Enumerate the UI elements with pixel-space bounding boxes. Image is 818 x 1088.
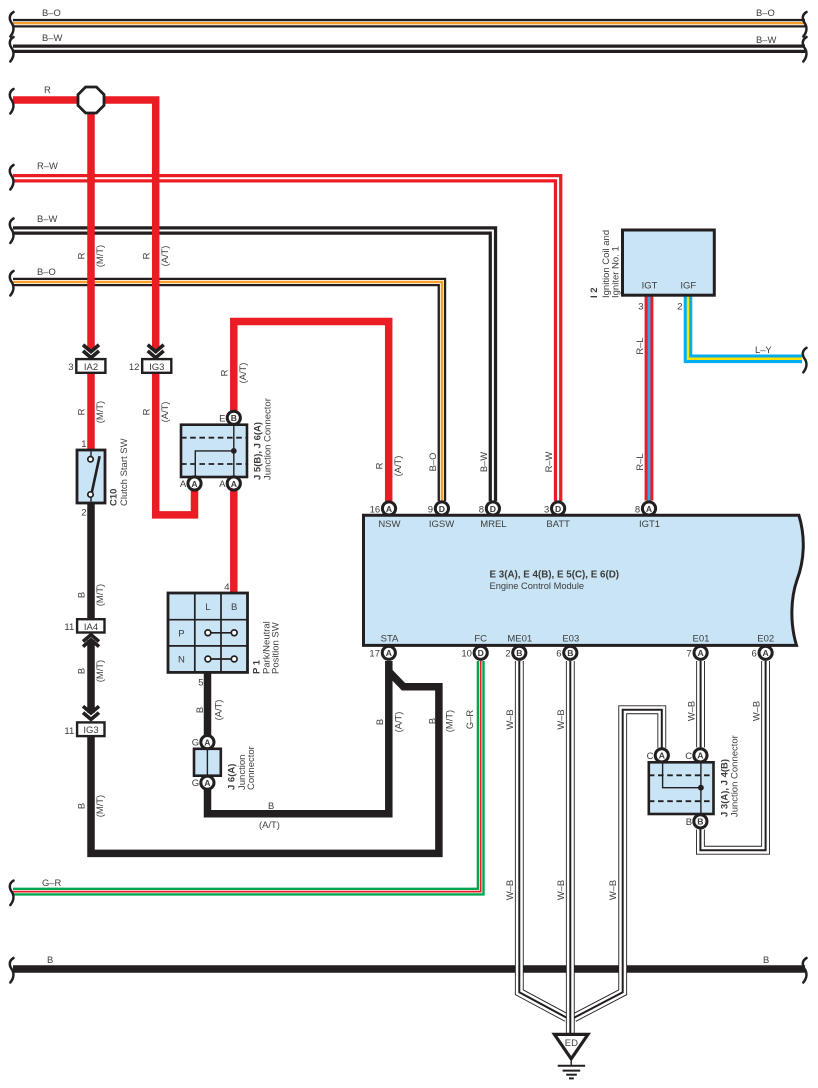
svg-text:4: 4 xyxy=(224,582,229,593)
svg-text:Igniter No. 1: Igniter No. 1 xyxy=(610,246,621,298)
svg-text:MREL: MREL xyxy=(480,519,506,530)
wire W-B from ECM ME01 pin 2 down to ground junction xyxy=(519,661,567,1018)
arrow chevrons above IA2 xyxy=(83,345,99,358)
wire B (M/T) from IA4 arrow down to IG3 arrow xyxy=(87,640,95,713)
svg-text:12: 12 xyxy=(129,362,140,373)
J6(A) pin G bottom (A) xyxy=(201,776,214,789)
svg-text:B: B xyxy=(686,817,692,828)
svg-text:Clutch Start SW: Clutch Start SW xyxy=(119,438,130,506)
svg-text:7: 7 xyxy=(687,649,692,660)
svg-text:L: L xyxy=(205,602,210,613)
wire B-O top bus xyxy=(13,19,805,28)
svg-text:5: 5 xyxy=(198,678,203,689)
junction connector J5(B), J6(A) xyxy=(181,425,247,477)
svg-text:B: B xyxy=(567,648,573,658)
svg-text:(A/T): (A/T) xyxy=(213,700,224,721)
svg-text:B: B xyxy=(231,413,237,423)
svg-text:A: A xyxy=(219,479,226,490)
wire B-O to IGSW xyxy=(13,282,442,501)
J5/J6 pin A left (A) xyxy=(188,477,201,490)
svg-text:R: R xyxy=(76,408,87,415)
svg-text:IG3: IG3 xyxy=(83,725,98,736)
svg-text:A: A xyxy=(180,479,187,490)
svg-text:IA2: IA2 xyxy=(84,362,98,373)
svg-text:R: R xyxy=(140,408,151,415)
svg-text:G: G xyxy=(192,738,199,749)
wire L-Y from I2 IGF pin 2 down and right xyxy=(688,295,802,359)
svg-text:B: B xyxy=(47,954,53,965)
svg-text:IA4: IA4 xyxy=(84,622,98,633)
break symbol left B-W 2 xyxy=(10,219,14,244)
svg-text:9: 9 xyxy=(428,504,433,515)
svg-text:B: B xyxy=(231,602,237,613)
connector IA4 xyxy=(77,619,104,633)
svg-text:R: R xyxy=(76,252,87,259)
svg-text:B–W: B–W xyxy=(42,32,62,43)
svg-text:16: 16 xyxy=(370,504,381,515)
svg-text:A: A xyxy=(697,648,703,658)
svg-text:A: A xyxy=(659,751,665,761)
arrow chevrons above IG3 (11) pointing down xyxy=(83,706,99,719)
wire R (A/T) from J5/J6 pin A down to P1 pin 4 xyxy=(230,491,238,593)
svg-text:Junction Connector: Junction Connector xyxy=(263,398,274,480)
svg-text:A: A xyxy=(231,479,237,489)
svg-text:10: 10 xyxy=(461,649,472,660)
svg-text:2: 2 xyxy=(81,508,86,519)
svg-text:I 2: I 2 xyxy=(589,287,600,298)
svg-text:(M/T): (M/T) xyxy=(94,660,105,682)
break symbol left B-W xyxy=(10,37,14,62)
ignition coil box I2 xyxy=(623,230,715,295)
svg-text:3: 3 xyxy=(544,504,549,515)
svg-text:(A/T): (A/T) xyxy=(392,456,403,477)
svg-text:(A/T): (A/T) xyxy=(237,363,248,384)
J3/J4 pin B (B) xyxy=(694,815,707,828)
wire W-B from ECM E03 pin 6 straight down to ground ED xyxy=(566,661,575,1035)
svg-text:(A/T): (A/T) xyxy=(393,712,404,733)
svg-text:P: P xyxy=(178,628,184,639)
wire R (A/T) from J5/J6 pin B up and right to ECM NSW pin 16 xyxy=(234,322,389,502)
junction connector J3(A), J4(B) xyxy=(649,762,714,814)
svg-text:W–B: W–B xyxy=(555,709,566,729)
svg-text:3: 3 xyxy=(68,362,73,373)
svg-text:D: D xyxy=(490,504,496,514)
break symbol left R xyxy=(10,89,14,114)
svg-text:Junction Connector: Junction Connector xyxy=(730,735,741,817)
svg-text:R–L: R–L xyxy=(634,337,645,354)
svg-text:B–W: B–W xyxy=(478,452,489,472)
park/neutral position switch P1 xyxy=(168,593,248,672)
break symbol left G-R xyxy=(10,881,14,906)
svg-text:A: A xyxy=(204,778,210,788)
svg-text:IGSW: IGSW xyxy=(429,519,454,530)
svg-text:W–B: W–B xyxy=(685,701,696,721)
svg-text:11: 11 xyxy=(64,622,74,633)
wire B (M/T) from IG3 down, right and up to STA junction xyxy=(91,672,439,854)
svg-text:Connector: Connector xyxy=(246,746,257,790)
svg-text:B: B xyxy=(268,800,274,811)
pin 7 E01 (A) xyxy=(694,646,707,659)
svg-text:R: R xyxy=(140,252,151,259)
svg-text:BATT: BATT xyxy=(546,519,570,530)
svg-text:B–O: B–O xyxy=(42,7,61,18)
J3/J4 pin C left (A) xyxy=(655,749,668,762)
svg-text:(M/T): (M/T) xyxy=(94,245,105,267)
svg-text:R–L: R–L xyxy=(634,453,645,470)
svg-text:ME01: ME01 xyxy=(507,634,532,645)
svg-text:C: C xyxy=(685,751,692,762)
svg-text:6: 6 xyxy=(752,649,757,660)
svg-text:6: 6 xyxy=(556,649,561,660)
wire B (A/T) from P1 pin 5 through J6(A) right and up to ECM STA pin 17 xyxy=(208,661,389,814)
svg-text:B: B xyxy=(516,648,522,658)
svg-text:(A/T): (A/T) xyxy=(159,246,170,267)
wire G-R from ECM FC pin 10 down and left xyxy=(13,661,481,892)
pin 6 E02 (A) xyxy=(759,646,772,659)
svg-text:A: A xyxy=(204,737,210,747)
svg-text:N: N xyxy=(178,655,185,666)
svg-text:2: 2 xyxy=(677,302,682,313)
J6(A) pin G top (A) xyxy=(201,736,214,749)
break symbol left B xyxy=(10,958,14,983)
svg-text:Position SW: Position SW xyxy=(271,622,282,674)
svg-text:B: B xyxy=(426,718,437,724)
break symbol right B xyxy=(803,958,807,983)
svg-text:R: R xyxy=(219,369,230,376)
wire R-L from I2 IGT pin 3 to ECM IGT1 pin 8 xyxy=(645,295,654,501)
svg-text:A: A xyxy=(191,479,197,489)
svg-text:11: 11 xyxy=(64,726,74,737)
pin 9 IGSW (D) xyxy=(435,502,448,515)
clutch start switch C10 xyxy=(77,450,105,503)
svg-text:G–R: G–R xyxy=(42,877,62,888)
break symbol left B-O xyxy=(10,12,14,37)
svg-text:(M/T): (M/T) xyxy=(94,584,105,606)
svg-text:E 3(A), E 4(B), E 5(C), E 6(D): E 3(A), E 4(B), E 5(C), E 6(D) xyxy=(490,570,620,581)
wire W-B from ECM E01 pin 7 to J3/J4 pin C xyxy=(696,661,705,747)
J5/J6 pin E (B) xyxy=(227,411,240,424)
wire R (A/T) from IG3(12) down, right, up to J5/J6 pin A xyxy=(156,360,195,515)
svg-text:B: B xyxy=(697,817,703,827)
connector IA2 xyxy=(76,359,105,373)
wire B-W top bus xyxy=(13,45,805,54)
svg-text:1: 1 xyxy=(81,439,86,450)
ground symbol xyxy=(558,1060,585,1078)
svg-text:L–Y: L–Y xyxy=(755,344,772,355)
wire B (M/T) from C10 pin 2 down to IA4 xyxy=(87,503,95,619)
svg-text:Engine Control Module: Engine Control Module xyxy=(490,581,585,591)
break symbol right B-W xyxy=(803,37,807,62)
svg-text:(M/T): (M/T) xyxy=(94,401,105,423)
svg-text:B: B xyxy=(374,719,385,725)
wire R-W to BATT xyxy=(13,178,558,501)
wire W-B from ECM E02 pin 6 down, left and up to J3/J4 pin B xyxy=(700,661,765,850)
svg-text:W–B: W–B xyxy=(607,880,618,900)
pin 8 IGT1 (A) xyxy=(642,502,655,515)
svg-text:E01: E01 xyxy=(693,634,710,645)
svg-text:D: D xyxy=(478,648,484,658)
wire R M/T segment through IA2 to C10 xyxy=(87,360,95,451)
svg-text:ED: ED xyxy=(565,1038,578,1049)
break symbol left R-W xyxy=(10,165,14,190)
svg-text:W–B: W–B xyxy=(504,709,515,729)
svg-text:R: R xyxy=(374,462,385,469)
pin 17 STA (A) xyxy=(382,646,395,659)
wire B bottom bus xyxy=(13,965,805,973)
svg-text:IG3: IG3 xyxy=(149,362,164,373)
arrow chevrons above IG3 (12) xyxy=(148,345,164,358)
wire R M/T branch from junction down to arrow above IA2 xyxy=(87,100,95,351)
pin 8 MREL (D) xyxy=(486,502,499,515)
svg-text:W–B: W–B xyxy=(750,701,761,721)
break symbol right L-Y xyxy=(803,348,807,373)
svg-text:B–W: B–W xyxy=(37,213,57,224)
pin 10 FC (D) xyxy=(474,646,487,659)
svg-text:D: D xyxy=(555,504,561,514)
J5/J6 pin A right (A) xyxy=(227,477,240,490)
svg-text:B: B xyxy=(194,707,205,713)
svg-text:A: A xyxy=(762,648,768,658)
svg-text:IGT: IGT xyxy=(642,281,658,292)
wire W-B from J3/J4 pin C up, left and down to ground junction xyxy=(574,710,662,1018)
svg-text:B–O: B–O xyxy=(427,453,438,472)
svg-text:A: A xyxy=(386,504,392,514)
svg-text:W–B: W–B xyxy=(504,880,515,900)
wire R main horizontal and A/T branch down to arrow above IG3(12) xyxy=(13,100,156,351)
svg-text:A: A xyxy=(386,648,392,658)
ECM box E3/E4/E5/E6 xyxy=(364,515,804,645)
svg-text:STA: STA xyxy=(381,634,399,645)
svg-text:(A/T): (A/T) xyxy=(159,402,170,423)
break symbol right B-O xyxy=(803,12,807,37)
svg-text:8: 8 xyxy=(635,504,640,515)
J3/J4 pin C right (A) xyxy=(694,749,707,762)
svg-text:R–W: R–W xyxy=(37,160,58,171)
svg-text:B–O: B–O xyxy=(37,266,56,277)
svg-text:B: B xyxy=(76,668,87,674)
svg-text:C: C xyxy=(647,751,654,762)
break symbol left B-O 2 xyxy=(10,271,14,296)
svg-text:E: E xyxy=(219,413,225,424)
svg-text:W–B: W–B xyxy=(555,880,566,900)
svg-text:R–W: R–W xyxy=(543,451,554,472)
svg-text:A: A xyxy=(697,751,703,761)
svg-text:2: 2 xyxy=(505,649,510,660)
svg-text:(M/T): (M/T) xyxy=(443,710,454,732)
junction connector J6(A) small xyxy=(194,749,221,776)
arrow chevrons below IA4 pointing up xyxy=(83,635,99,647)
svg-text:(M/T): (M/T) xyxy=(94,795,105,817)
pin 3 BATT (D) xyxy=(552,502,565,515)
svg-text:(A/T): (A/T) xyxy=(259,819,280,830)
svg-text:A: A xyxy=(646,504,652,514)
svg-text:B: B xyxy=(76,803,87,809)
svg-text:IGF: IGF xyxy=(680,281,696,292)
svg-text:G: G xyxy=(192,778,199,789)
svg-text:17: 17 xyxy=(369,649,380,660)
node: splice junction octagon on wire R xyxy=(78,87,104,113)
svg-text:B–W: B–W xyxy=(756,34,776,45)
svg-text:E03: E03 xyxy=(562,634,579,645)
svg-text:IGT1: IGT1 xyxy=(639,519,660,530)
wire B-W to MREL xyxy=(13,231,493,502)
svg-text:R: R xyxy=(44,84,51,95)
svg-text:NSW: NSW xyxy=(378,519,400,530)
svg-text:E02: E02 xyxy=(757,634,774,645)
svg-text:B–O: B–O xyxy=(756,7,775,18)
svg-text:B: B xyxy=(76,592,87,598)
pin 6 E03 (B) xyxy=(564,646,577,659)
svg-text:D: D xyxy=(439,504,445,514)
svg-text:3: 3 xyxy=(638,302,643,313)
pin 16 NSW (A) xyxy=(382,502,395,515)
svg-text:B: B xyxy=(763,954,769,965)
connector IG3 (12) xyxy=(142,359,171,373)
svg-text:G–R: G–R xyxy=(464,710,475,730)
ground ED triangle xyxy=(554,1034,588,1058)
pin 2 ME01 (B) xyxy=(513,646,526,659)
svg-text:FC: FC xyxy=(474,634,487,645)
svg-text:8: 8 xyxy=(479,504,484,515)
connector IG3 (11) xyxy=(77,722,104,736)
